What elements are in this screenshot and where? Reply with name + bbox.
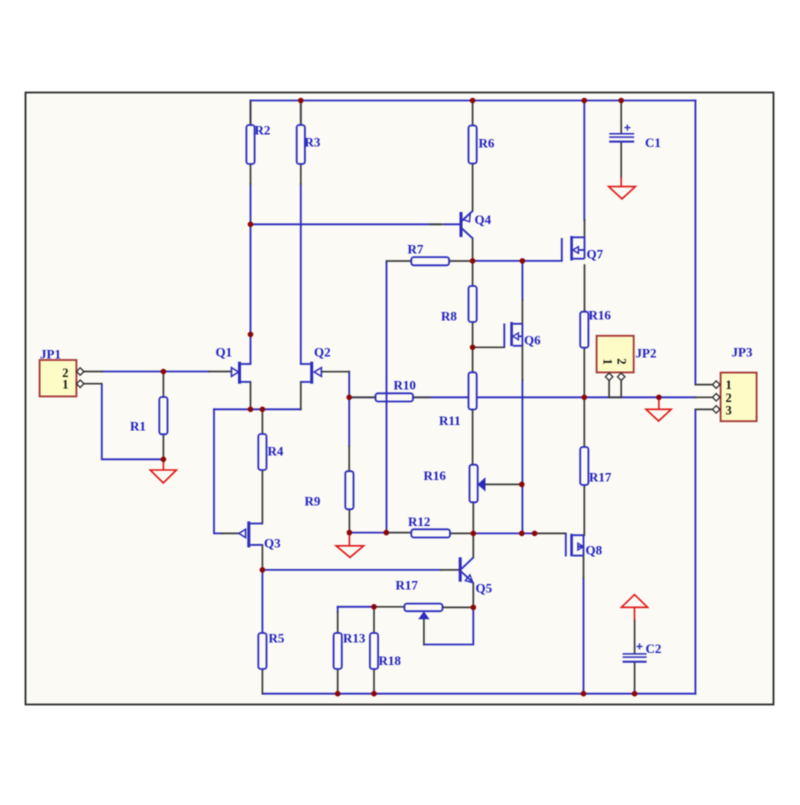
svg-text:Q5: Q5 xyxy=(476,581,493,596)
svg-text:Q1: Q1 xyxy=(216,345,233,360)
svg-text:R17: R17 xyxy=(589,470,612,485)
svg-text:Q3: Q3 xyxy=(264,536,281,551)
svg-text:R8: R8 xyxy=(441,309,457,324)
svg-text:Q6: Q6 xyxy=(524,333,541,348)
svg-text:R1: R1 xyxy=(130,419,146,434)
svg-text:R7: R7 xyxy=(408,242,424,257)
svg-text:JP2: JP2 xyxy=(636,346,657,361)
svg-text:C2: C2 xyxy=(646,641,662,656)
svg-text:R5: R5 xyxy=(269,631,285,646)
svg-text:R2: R2 xyxy=(255,123,271,138)
svg-text:1: 1 xyxy=(62,378,68,392)
svg-text:R10: R10 xyxy=(394,378,416,393)
svg-text:R18: R18 xyxy=(379,653,402,668)
svg-text:1: 1 xyxy=(601,359,615,365)
svg-text:1: 1 xyxy=(726,378,732,392)
svg-text:Q8: Q8 xyxy=(586,543,603,558)
svg-text:R9: R9 xyxy=(305,494,321,509)
svg-text:3: 3 xyxy=(726,404,732,418)
svg-text:R6: R6 xyxy=(479,136,495,151)
svg-text:R13: R13 xyxy=(343,631,366,646)
svg-text:JP3: JP3 xyxy=(732,345,753,360)
svg-text:R17: R17 xyxy=(396,578,419,593)
svg-text:R16: R16 xyxy=(589,308,612,323)
svg-text:Q4: Q4 xyxy=(475,212,492,227)
svg-text:R12: R12 xyxy=(408,514,430,529)
svg-text:2: 2 xyxy=(615,358,629,364)
svg-text:R16: R16 xyxy=(424,468,447,483)
svg-text:R11: R11 xyxy=(439,413,461,428)
svg-text:R4: R4 xyxy=(268,444,284,459)
svg-text:Q2: Q2 xyxy=(314,345,331,360)
svg-text:JP1: JP1 xyxy=(40,347,61,362)
svg-text:C1: C1 xyxy=(645,135,661,150)
svg-text:R3: R3 xyxy=(305,135,321,150)
svg-text:Q7: Q7 xyxy=(587,247,604,262)
